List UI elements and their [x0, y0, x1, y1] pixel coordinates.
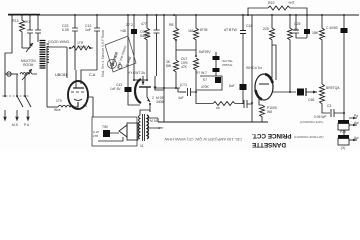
capacitor C23 (x75): [72, 15, 78, 70]
label 0.05uF: [314, 115, 326, 119]
label R8: [169, 23, 173, 27]
label R22: [268, 1, 274, 5]
capacitor C9 (x154): [154, 15, 160, 76]
label 47K: [181, 57, 188, 69]
label R20: [267, 106, 277, 114]
V2 right lead: [155, 76, 164, 90]
electrolytic C19 (x243): [240, 84, 247, 90]
label Wxe: [54, 108, 61, 112]
node V2b: [146, 79, 148, 81]
V2 emitter: [147, 87, 150, 102]
AGC resistor R2 (horizontal, x76-90): [70, 46, 93, 50]
wire HT branch riser: [248, 8, 268, 15]
trimmer circle: [7, 72, 11, 76]
node 344-113: [343, 112, 345, 114]
label C19: [229, 84, 235, 88]
label 1M: [188, 29, 193, 33]
label C43: [116, 83, 122, 87]
transformer T1 secondary: [147, 115, 149, 139]
wire x163 long drop: [163, 15, 165, 122]
wire P1 out: [349, 118, 357, 125]
capacitor C18 (x243 top): [240, 15, 246, 34]
dual electrolytic C16b: [213, 68, 220, 72]
capacitor C21 (x296): [293, 15, 307, 38]
wire x128 drop: [127, 15, 129, 87]
label wer: [158, 126, 163, 130]
terminal stub MS: [16, 110, 18, 117]
label Aw1: [354, 121, 359, 125]
switch arm 1: [17, 96, 23, 107]
caption small (rotated 180): [162, 137, 242, 142]
label GOOD WING: [48, 40, 69, 44]
label UBF80: [55, 73, 67, 77]
label X: [341, 146, 345, 150]
electrolytic C22 (x307): [306, 15, 308, 29]
label +48: [120, 29, 126, 33]
AGC arrow (left tuning): [26, 43, 33, 52]
node 290-92: [289, 91, 291, 93]
label 18K: [312, 31, 318, 35]
wire screen x276: [272, 45, 276, 80]
DIN block: [103, 130, 110, 137]
label P6: [83, 104, 87, 108]
wire R13 to tuning: [22, 47, 30, 49]
node sw1: [16, 95, 18, 97]
tube V1 UBC81 envelope: [68, 81, 88, 109]
label W7: [196, 71, 207, 75]
wire P2 out: [349, 139, 357, 141]
V3 cathode lead: [259, 97, 262, 105]
label Aw2: [354, 136, 359, 140]
node R8: [175, 39, 177, 41]
node y88 junctions: [163, 87, 165, 89]
resistor R12 47K (x196 lower): [194, 58, 214, 104]
label C12: [85, 24, 91, 32]
sticker rotated text: [110, 44, 132, 69]
resistor R9 3K8 (x176 lower): [174, 60, 179, 88]
node 196-92: [195, 91, 197, 93]
wire heater left: [47, 106, 58, 108]
ferrite rod aerial coil L1 (hatched): [40, 41, 50, 69]
V1 top pin: [75, 70, 77, 88]
oscillator coil L2 (bottom-left): [5, 73, 18, 75]
node V2a: [133, 79, 135, 81]
label T1: [140, 144, 144, 148]
wire in box: [98, 133, 123, 141]
resistor R14 (horizontal y103): [213, 102, 244, 106]
V1 bottom pin: [74, 102, 78, 107]
label C4B: [308, 98, 314, 102]
label R13: [12, 19, 18, 23]
wire y50 link: [176, 49, 196, 51]
label R11: [141, 22, 147, 26]
label 3K8: [166, 61, 171, 69]
label 1T9: [56, 99, 62, 103]
capacitor C12 (x97): [81, 15, 100, 84]
switch S1 gang (dashed link): [2, 95, 30, 97]
node sw3: [4, 95, 6, 97]
label C21: [294, 22, 300, 26]
capacitor C3 (y113): [331, 109, 344, 117]
label CC8: [140, 30, 150, 38]
label LOOKING BACK: [300, 120, 323, 124]
sticker note box (rotated): [105, 36, 136, 72]
wire x93 to speaker box: [88, 97, 93, 117]
label MEDIUM WAVE: [21, 60, 36, 67]
resistor R20 cathode (x262): [260, 105, 265, 122]
wire x12 drop: [5, 15, 12, 96]
label CA: [89, 73, 95, 77]
speaker frame: [127, 123, 138, 140]
speaker cone: [119, 125, 127, 137]
plug P1 (looking back): [338, 120, 349, 124]
wire top HT bus: [8, 14, 359, 16]
label 4uF: [178, 96, 184, 100]
wire HT branch to bus: [290, 8, 307, 15]
label AW: [93, 130, 99, 138]
resistor R18 18K (x322): [320, 15, 325, 84]
wire LW loop box: [47, 47, 67, 107]
terminal stub E: [4, 110, 6, 117]
label 10K: [216, 106, 220, 110]
label 3ohm: [150, 119, 157, 123]
label C13: [126, 23, 133, 27]
V2 cathode drop: [149, 103, 151, 112]
label 4K7: [24, 20, 30, 24]
label K7: [203, 78, 207, 82]
resistor R17 (x290): [288, 15, 293, 92]
wire V3 anode out y92: [272, 91, 296, 93]
label C3: [327, 104, 331, 108]
label C17: [180, 83, 187, 87]
speaker box: [92, 117, 137, 146]
capacitor C1 (x30): [27, 15, 33, 48]
V1 anode: [73, 87, 84, 89]
electrolytic C24 (horizontal on y92): [297, 89, 304, 96]
text labels layer: [0, 0, 360, 151]
label 1uF6V: [110, 87, 121, 91]
dual electrolytic C16a: [215, 52, 217, 76]
electrolytic C25 40/50uF (x344): [343, 15, 345, 28]
bottom bus wire: [158, 121, 268, 123]
label C18: [246, 24, 252, 28]
V2 base bar: [139, 86, 151, 88]
variable arrow through L2: [22, 69, 32, 80]
resistor R10 1M (x196): [194, 15, 199, 55]
label +HT: [288, 1, 295, 5]
capacitor C2 (x38): [35, 15, 41, 42]
V1 grid: [71, 91, 84, 93]
box detector: [196, 76, 222, 90]
label R15: [263, 27, 269, 31]
coil L2 bumps: [20, 73, 32, 75]
label MS: [12, 123, 18, 127]
node sw2: [24, 95, 26, 97]
caption DANSETTE PRINCE CCT (rotated 180): [252, 131, 296, 148]
capacitor C17 (coupling, y92): [180, 88, 196, 96]
electrolytic C15 in box: [215, 77, 221, 83]
label ECC81: [128, 71, 145, 75]
resistor R22 (HT dropper, horizontal): [268, 6, 290, 10]
wire x252: [251, 15, 253, 122]
T1 connections: [140, 110, 160, 128]
label C40: [326, 26, 338, 30]
label TTR: [77, 41, 86, 49]
transistor/triode V2 bold arc: [135, 79, 141, 103]
label P18: [340, 130, 346, 134]
wire y88: [155, 88, 186, 92]
potentiometer VR1 (x322): [320, 84, 331, 113]
resistor R13 (left, vertical): [20, 15, 25, 48]
label J00: [293, 28, 298, 32]
transformer T1 core: [143, 114, 145, 141]
node 196-55: [195, 55, 197, 57]
terminal stub PU: [27, 110, 29, 117]
plug P2 (looking forward): [338, 135, 349, 139]
tube V3 UL84 envelope: [255, 74, 273, 100]
label LOOKING FWD: [294, 135, 323, 139]
node V2c: [149, 103, 151, 105]
V2 top wires: [134, 79, 147, 81]
transformer T1 primary: [139, 115, 141, 139]
node 252: [251, 102, 253, 104]
resistor R11 (x147): [145, 15, 150, 80]
wire coil to switch: [17, 74, 37, 96]
label DIN: [102, 125, 108, 129]
label 8T05: [200, 28, 208, 32]
label MDE: [156, 96, 164, 104]
wire y92 to R12: [195, 91, 197, 93]
switch arm 2: [25, 96, 31, 107]
label 2: [152, 96, 154, 100]
label 5uF: [199, 50, 211, 54]
electrolytic C8 (x135): [133, 15, 135, 29]
capacitor C20 (y103): [244, 100, 252, 108]
label UL84: [246, 66, 262, 70]
V3 grid/anode internals: [259, 83, 269, 85]
label 500K: [326, 86, 340, 90]
label 470K: [201, 85, 209, 89]
label C23: [62, 24, 69, 32]
node 243: [242, 14, 244, 16]
label 0.01: [224, 28, 237, 32]
resistor R8 (x176): [174, 15, 179, 60]
V1 cathode: [74, 99, 82, 101]
label Pa: [354, 114, 358, 118]
electrolytic C14 (1uF 6V): [125, 87, 132, 92]
heater choke (bumps): [58, 105, 74, 107]
resistor R15 (x272): [270, 15, 275, 78]
V2 collector lead: [142, 76, 144, 85]
bus junction dots: [11, 14, 345, 16]
label 3xCHL: [222, 60, 233, 67]
label PU: [24, 123, 29, 127]
